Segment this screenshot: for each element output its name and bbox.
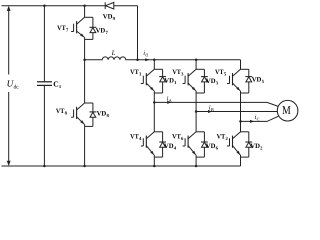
wire: VT2 emitter to - rail <box>240 157 242 166</box>
current arrow id <box>145 58 149 61</box>
diode VD4 <box>154 132 166 157</box>
transistor VT2 <box>227 132 249 157</box>
node: phase node B <box>195 110 198 113</box>
diode VD7 <box>85 17 97 39</box>
transistor VT8 <box>71 103 93 126</box>
diode VD1 <box>154 69 166 93</box>
transistor VT4 <box>141 132 163 157</box>
phase A wire <box>154 102 278 106</box>
node: phase node C <box>239 120 242 123</box>
wire: VT4 top lead <box>153 102 155 131</box>
svg-text:M: M <box>282 103 291 117</box>
wire: VT7 top lead <box>84 6 86 18</box>
transistor VT7 <box>71 17 93 39</box>
top DC+ rail <box>2 5 106 7</box>
svg-text:L: L <box>111 50 116 57</box>
node X: chopper midpoint <box>83 59 86 62</box>
phase B wire <box>196 111 277 113</box>
node: C1 top junction <box>43 4 46 7</box>
node: C1 bottom junction <box>43 165 46 168</box>
transistor VT1 <box>141 69 163 93</box>
wire: DC link mid rail to inverter <box>138 59 241 61</box>
transistor VT3 <box>183 69 205 93</box>
wire: VT5 top lead <box>240 60 242 70</box>
motor M <box>277 100 298 121</box>
current arrow iA <box>167 101 171 104</box>
wire: VD9 branch down to inductor output node <box>137 6 139 60</box>
diode VD8 <box>85 103 97 126</box>
node: leg 2 on - rail <box>195 165 198 168</box>
wire: VT1 top lead <box>153 60 155 70</box>
node: inductor output / VD9 junction <box>136 59 139 62</box>
wire: VT3 top lead <box>195 60 197 70</box>
wire: VT6 top lead <box>195 112 197 132</box>
wire: VT8 top lead <box>84 60 86 103</box>
wire: VT3 emitter down to phase node <box>195 93 197 112</box>
diode VD9 <box>105 2 137 9</box>
phase C wire <box>241 116 279 121</box>
transistor VT6 <box>183 132 205 157</box>
current arrow iB <box>208 110 212 113</box>
wire: VT5 emitter down to phase node <box>240 93 242 121</box>
current arrow iC <box>250 120 254 123</box>
node: VT8 bottom junction <box>83 165 86 168</box>
bottom DC- rail <box>2 165 241 167</box>
capacitor C1 <box>37 6 52 166</box>
node: leg 1 on mid rail <box>153 59 156 62</box>
node: VT7 collector junction on + rail <box>83 4 86 7</box>
wire: VT6 emitter to - rail <box>195 157 197 166</box>
wire: VT7 emitter to node X <box>84 39 86 59</box>
diode VD3 <box>196 69 208 93</box>
diode VD6 <box>196 132 208 157</box>
wire: VT4 emitter to - rail <box>153 157 155 166</box>
node: leg 1 on - rail <box>153 165 156 168</box>
wire: VT1 emitter down to phase node <box>153 93 155 102</box>
node: leg 2 on mid rail <box>195 59 198 62</box>
wire: VT2 top lead <box>240 121 242 131</box>
inductor L <box>85 57 138 60</box>
node: phase node A <box>153 101 156 104</box>
wire: VT8 emitter to - rail <box>84 126 86 166</box>
diode VD2 <box>241 132 253 157</box>
voltage arrow Udc <box>7 6 11 166</box>
diode VD5 <box>241 69 253 93</box>
transistor VT5 <box>227 69 249 93</box>
